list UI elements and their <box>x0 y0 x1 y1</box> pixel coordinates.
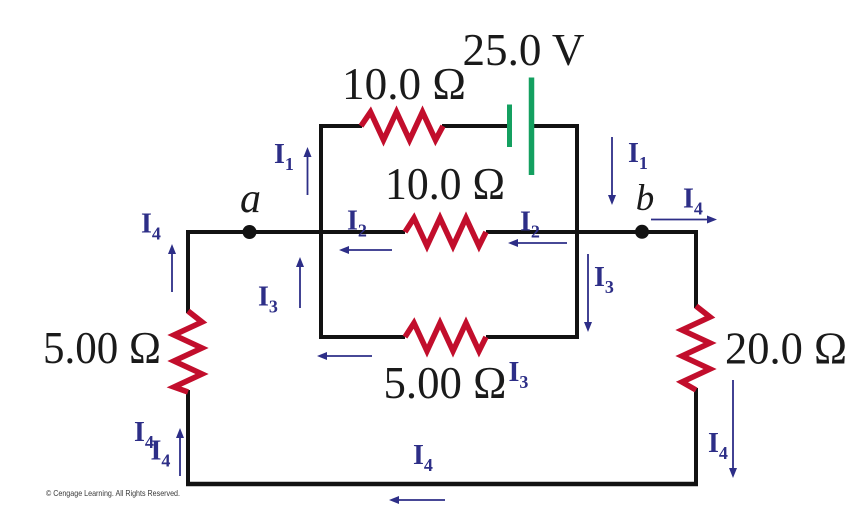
wire inner left vertical <box>319 124 323 339</box>
wire top branch left <box>319 124 362 128</box>
wire top branch right of battery <box>532 124 579 128</box>
resistor 5.00 ohm inner bottom <box>405 323 486 351</box>
node a dot <box>243 225 257 239</box>
current arrow I2 left <box>339 246 392 254</box>
wire outer right vertical upper <box>694 230 698 308</box>
current arrow I4 top-right right-pointing <box>651 216 717 224</box>
resistor 10.0 ohm top <box>361 112 443 140</box>
battery 25.0 V short plate <box>507 105 512 148</box>
current arrow I1 right down <box>608 137 616 205</box>
svg-text:© Cengage Learning. All Rights: © Cengage Learning. All Rights Reserved. <box>46 488 180 498</box>
current arrow I2 right <box>508 239 567 247</box>
svg-text:25.0 V: 25.0 V <box>463 24 585 75</box>
wire inner bottom branch right <box>486 335 579 339</box>
current arrow I3 bottom left-pointing <box>317 352 372 360</box>
current arrow I4 bottom-left up <box>176 428 184 476</box>
resistor 20.0 ohm right vertical <box>682 306 710 390</box>
svg-text:a: a <box>240 176 261 222</box>
resistor 10.0 ohm middle <box>405 218 486 246</box>
wire middle horizontal right of resistor <box>486 230 698 234</box>
svg-text:20.0 Ω: 20.0 Ω <box>725 323 847 374</box>
wire outer bottom <box>186 482 698 487</box>
svg-text:5.00 Ω: 5.00 Ω <box>43 322 161 373</box>
current arrow I3 right down <box>584 254 592 332</box>
resistor 5.00 ohm left vertical <box>174 311 202 392</box>
wire outer left vertical lower <box>186 390 190 486</box>
wire inner right vertical <box>575 124 579 339</box>
svg-text:5.00 Ω: 5.00 Ω <box>384 357 507 408</box>
svg-text:10.0 Ω: 10.0 Ω <box>385 158 505 209</box>
wire outer right vertical lower <box>694 388 698 486</box>
wire outer left vertical upper <box>186 230 190 313</box>
wire top branch between resistor and battery <box>442 124 508 128</box>
svg-text:10.0 Ω: 10.0 Ω <box>342 58 466 109</box>
current arrow I1 left up <box>304 147 312 195</box>
current arrow I3 left up <box>296 257 304 308</box>
wire inner bottom branch left <box>319 335 405 339</box>
current arrow I4 bottom-right down <box>729 380 737 478</box>
svg-text:b: b <box>636 178 655 219</box>
current arrow I4 bottom-middle left-pointing <box>389 496 445 504</box>
node b dot <box>635 225 649 239</box>
battery 25.0 V long plate <box>529 78 535 176</box>
wire middle horizontal a-b branch <box>186 230 405 234</box>
current arrow I4 top-left up <box>168 244 176 292</box>
